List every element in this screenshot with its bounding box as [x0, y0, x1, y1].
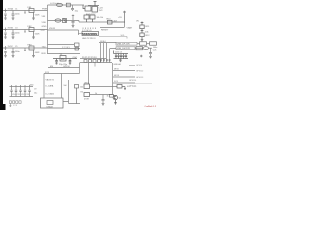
svg-text:MISO: MISO [114, 69, 120, 71]
svg-text:USB_DM 22R: USB_DM 22R [117, 48, 131, 50]
capacitor C3 [4, 28, 7, 39]
svg-text:SDA1: SDA1 [100, 40, 106, 43]
svg-text:D+ DATA: D+ DATA [46, 92, 55, 95]
label R11 chain [136, 21, 150, 38]
net stub row1 [113, 70, 135, 72]
svg-text:VBAT: VBAT [127, 27, 133, 30]
svg-text:GND TX RX IO: GND TX RX IO [82, 38, 96, 40]
resistor R13 [140, 42, 147, 45]
wire to band1 [99, 42, 116, 44]
svg-text:100n: 100n [15, 51, 21, 53]
svg-text:LED1: LED1 [84, 82, 90, 84]
svg-text:VCC: VCC [41, 30, 46, 32]
module U3 [41, 80, 81, 108]
connector J1 [79, 28, 99, 41]
wire rail VCC2 [3, 29, 48, 31]
wire mid feed [48, 21, 113, 23]
svg-text:EN: EN [50, 66, 53, 68]
svg-text:USB_DP 22R: USB_DP 22R [117, 44, 130, 46]
svg-text:OSC: OSC [73, 57, 78, 59]
net stub row2 [113, 76, 135, 78]
svg-text:GPIO13: GPIO13 [136, 77, 144, 79]
resistor R14 [150, 42, 157, 45]
test point TP1 [140, 55, 143, 57]
svg-text:PWR: PWR [42, 9, 48, 11]
svg-text:10k 10k: 10k 10k [97, 17, 104, 19]
capacitor C2 [12, 11, 15, 20]
wire stub P4 [94, 63, 96, 67]
arrow out [122, 87, 126, 90]
svg-text:AMS1117: AMS1117 [86, 13, 96, 16]
svg-text:C9: C9 [34, 89, 36, 91]
wire box feeds [44, 68, 80, 99]
svg-text:100n: 100n [15, 14, 21, 16]
svg-text:CadSoft 1.2: CadSoft 1.2 [145, 105, 157, 108]
fuse F3 [143, 47, 149, 50]
svg-text:VIN: VIN [42, 16, 46, 18]
label pins [62, 47, 71, 49]
svg-text:100n: 100n [30, 85, 34, 87]
resistor R15 [136, 47, 143, 50]
header pins cluster [75, 43, 80, 50]
IC lower pin row [80, 57, 112, 63]
svg-text:470R: 470R [84, 98, 89, 100]
node tick rail2 [24, 30, 26, 33]
label R2 [107, 17, 123, 23]
label R20 [107, 96, 109, 98]
svg-text:SCK: SCK [114, 81, 119, 83]
svg-text:MOSI: MOSI [114, 75, 120, 77]
capacitor C9 [149, 48, 152, 58]
capacitor C5 [4, 46, 7, 57]
svg-text:C13: C13 [26, 94, 29, 96]
label R19 [81, 91, 98, 100]
label box feeds [45, 66, 70, 74]
label jumper pads [13, 105, 17, 107]
net stub row0 [129, 64, 135, 66]
fuse F2 [55, 19, 61, 22]
wire rail VCC3 [3, 47, 48, 49]
capacitor C15 [102, 95, 105, 106]
label aux [101, 27, 133, 32]
svg-text:C10: C10 [12, 94, 15, 96]
diode D2 [63, 19, 67, 23]
label capacitor bank right [114, 52, 124, 66]
svg-text:VD: VD [136, 21, 139, 23]
border frame left black margin [0, 0, 3, 110]
svg-text:GPIO4: GPIO4 [136, 65, 143, 67]
svg-text:L4 10uH: L4 10uH [50, 3, 59, 5]
wire top feed [48, 4, 85, 6]
resistor R19 [84, 93, 90, 97]
wire rail2 to IC [48, 30, 79, 34]
transistor Q1 [113, 95, 117, 104]
svg-text:GPIO12: GPIO12 [136, 70, 144, 72]
wire rail VCC1 [3, 10, 48, 12]
svg-text:C5: C5 [15, 46, 17, 48]
label top feed [50, 3, 79, 12]
svg-text:4M: 4M [61, 58, 64, 61]
svg-text:GPIO0: GPIO0 [63, 66, 70, 68]
resistor R1 [84, 15, 95, 22]
svg-text:1 2 3 4 5: 1 2 3 4 5 [62, 47, 71, 49]
svg-text:3V3C: 3V3C [8, 46, 14, 48]
svg-text:C11: C11 [17, 94, 20, 96]
capacitor C7 [71, 5, 74, 11]
label wire nets [46, 79, 67, 95]
svg-text:100n: 100n [15, 33, 21, 35]
jumper pads JP1 [9, 101, 21, 107]
label Q1 [119, 98, 123, 100]
pull-up R16 [75, 85, 79, 104]
wire bundle [101, 43, 117, 63]
resistor chain R11 [140, 22, 144, 42]
svg-text:MMMMMMM: MMMMMMM [82, 32, 97, 36]
label U2 [86, 8, 103, 16]
capacitor C1 [4, 9, 7, 20]
wire aux [100, 23, 125, 28]
resistor R18 [117, 85, 122, 89]
svg-text:D- DATA: D- DATA [46, 85, 54, 88]
svg-text:ANT 2.4G: ANT 2.4G [127, 85, 137, 88]
bus label band2 [116, 47, 157, 59]
capacitor C8 [72, 15, 75, 28]
wire out1 [90, 86, 118, 88]
fuse F1 [57, 3, 63, 6]
net stub row3 [113, 82, 135, 84]
svg-text:10u: 10u [34, 93, 37, 95]
inductor L3 [29, 46, 35, 57]
svg-text:VDD33: VDD33 [49, 28, 55, 30]
wire from IC right [99, 37, 127, 39]
svg-text:600R: 600R [35, 52, 40, 54]
capacitor bank C16-C20 [114, 51, 129, 62]
svg-text:100n x5: 100n x5 [115, 52, 123, 54]
svg-text:VDD: VDD [42, 22, 47, 24]
svg-text:C1: C1 [15, 9, 17, 11]
label net [100, 40, 106, 43]
svg-text:VBUS 5V: VBUS 5V [46, 79, 55, 81]
node tick rail1 [24, 11, 26, 14]
wire bus vertical [47, 5, 49, 54]
svg-text:GND: GND [42, 26, 47, 28]
wire row B [48, 48, 81, 50]
svg-text:1 2 3: 1 2 3 [13, 105, 17, 107]
wire row A [48, 44, 75, 46]
label out1 [127, 85, 137, 88]
resistor R20 base [110, 94, 114, 97]
diode D1 [66, 3, 70, 7]
wire out2 [90, 94, 114, 96]
svg-text:3V3B: 3V3B [8, 28, 14, 30]
svg-text:C12: C12 [21, 94, 24, 96]
label net SCL [121, 35, 126, 37]
inductor L1 [29, 9, 35, 20]
svg-text:C3: C3 [15, 28, 17, 30]
wire GPIO2 down [88, 63, 90, 84]
svg-text:USB-B: USB-B [47, 106, 54, 108]
svg-text:RESET: RESET [101, 30, 109, 32]
inductor L2 [29, 28, 35, 39]
svg-text:600R: 600R [35, 14, 40, 16]
svg-text:10k: 10k [80, 86, 83, 88]
label R1 R3 [97, 17, 104, 19]
node tick rail3 [24, 48, 26, 51]
capacitor C4 [12, 30, 15, 39]
crystal Y1 [53, 56, 77, 65]
watermark [145, 105, 157, 108]
label R17 [80, 82, 90, 88]
capacitor bank C10-C14 [10, 85, 34, 97]
resistor R17 [84, 84, 90, 89]
svg-text:600R: 600R [35, 33, 40, 35]
resistor R2 [108, 20, 126, 24]
regulator U2 [83, 2, 99, 13]
svg-text:+5V: +5V [118, 17, 122, 19]
label capacitor bank [12, 85, 37, 97]
svg-text:GPIO14: GPIO14 [129, 80, 137, 82]
svg-text:GND A0: GND A0 [114, 63, 122, 66]
svg-text:1k: 1k [107, 96, 109, 98]
wire row C [48, 53, 81, 55]
power flag +5V [123, 11, 126, 23]
wire faint top [128, 83, 152, 85]
wire base down [112, 63, 114, 95]
label Y1 [59, 54, 78, 66]
bus label band1 [116, 42, 157, 46]
capacitor C6 [12, 48, 15, 57]
svg-text:3V3A: 3V3A [8, 8, 14, 11]
wire EN left leg [79, 63, 81, 68]
